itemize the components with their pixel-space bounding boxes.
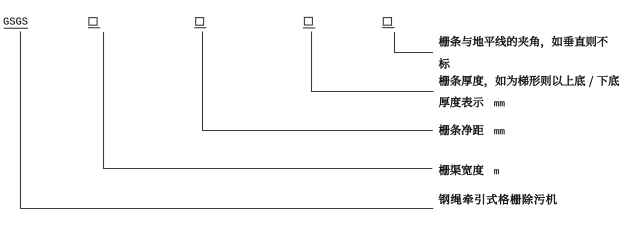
label line 1: 栅条与地平线的夹角，如垂直则不 — [439, 36, 608, 48]
field box 2 (square symbol with underline) — [194, 18, 206, 29]
field box 4 (square symbol with underline) — [382, 18, 394, 29]
label: 钢绳牵引式格栅除污机 — [439, 194, 557, 204]
designation text GSGS with underline — [4, 18, 28, 29]
wire from box 2 down to label 栅条净距 — [203, 32, 433, 131]
label: 栅渠宽度 m — [439, 165, 499, 176]
field box 3 (square symbol with underline) — [303, 17, 315, 28]
label line 1: 栅条厚度，如为梯形则以上底/下底 — [439, 75, 619, 87]
wire from box 3 down to label 栅条厚度 — [312, 32, 434, 92]
wire from box 1 down to label 栅渠宽度 — [104, 32, 433, 169]
label line 2: 厚度表示 mm — [439, 97, 505, 108]
wire from GSGS down to label 钢绳牵引式格栅除污机 — [21, 32, 434, 209]
field box 1 (square symbol with underline) — [88, 18, 100, 29]
wire from box 4 down to label 栅条夹角 — [395, 32, 434, 53]
label line 2: 标 — [439, 58, 450, 68]
label: 栅条净距 mm — [439, 125, 505, 135]
